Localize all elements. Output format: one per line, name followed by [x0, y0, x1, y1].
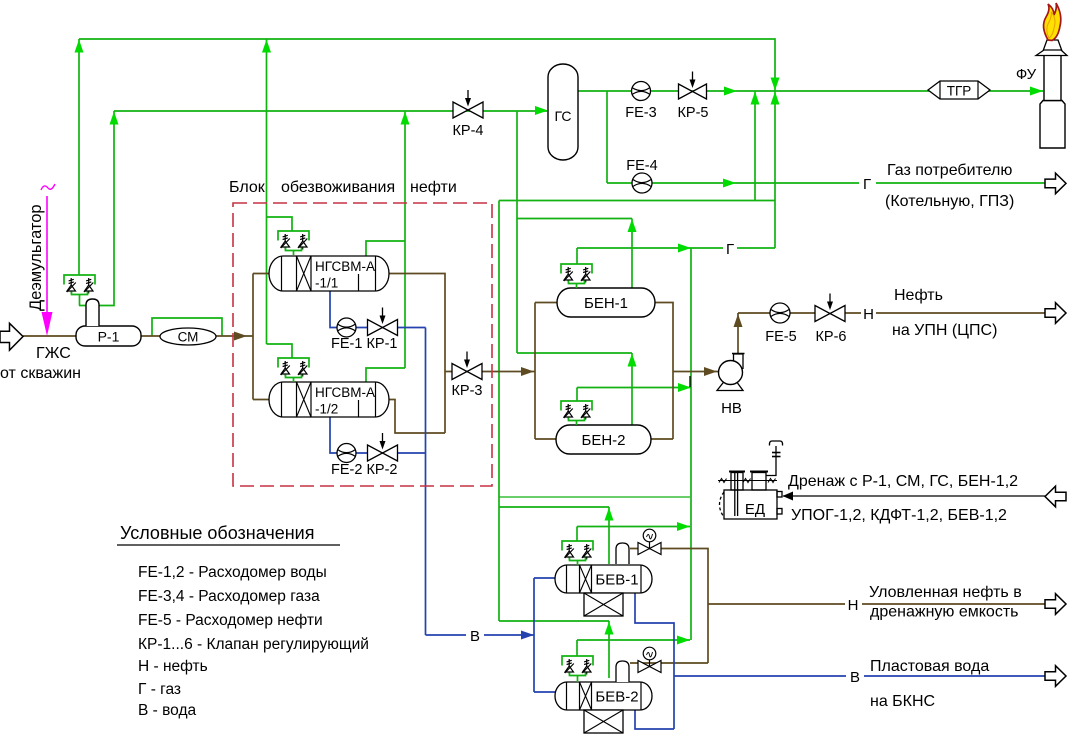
wire: NGSVM-1 gas outlet — [366, 241, 405, 256]
svg-text:нефти: нефти — [410, 179, 457, 196]
control valve KR-2 — [368, 445, 383, 461]
control valve KR-5 — [679, 84, 693, 99]
wire: BEN inlet manifold — [535, 303, 557, 440]
wire: BEN-1 oil outlet — [655, 303, 673, 440]
svg-text:СМ: СМ — [178, 330, 199, 345]
wire: G line y248 left of label — [577, 247, 723, 249]
wire: NGSVM-2 oil outlet — [384, 400, 445, 434]
svg-text:НВ: НВ — [721, 400, 742, 417]
control valve KR-3 — [452, 364, 467, 380]
wire: pump suction — [673, 371, 718, 373]
svg-text:Н: Н — [848, 597, 859, 614]
flow arrow: BEV-2 relief line — [677, 636, 690, 645]
flow arrow: gas to consumer line — [723, 179, 736, 188]
wire: BEV-1 water outlet — [635, 593, 674, 729]
svg-text:В: В — [470, 628, 480, 645]
flow arrow: oil into BEN manifold — [521, 367, 534, 376]
wire: flare header y91 — [578, 90, 1043, 92]
wire: CM to dehydration block — [216, 335, 253, 337]
svg-text:FE-1,2 - Расходомер воды: FE-1,2 - Расходомер воды — [138, 564, 327, 581]
vessel BEV-2 — [555, 682, 652, 733]
outlet arrow: oil to UPN — [1045, 303, 1066, 324]
flow meter FE-5 — [770, 303, 790, 323]
outlet arrow: water to BKNS — [1045, 666, 1066, 687]
svg-text:В: В — [850, 669, 860, 686]
flow arrow: BEV-2 riser — [605, 622, 614, 635]
svg-text:Пластовая вода: Пластовая вода — [870, 658, 989, 675]
wire: P-1 to CM — [141, 335, 160, 337]
arrow on water line — [521, 631, 534, 640]
svg-text:Р-1: Р-1 — [98, 329, 120, 345]
drain line — [783, 495, 1045, 497]
svg-text:FE-4: FE-4 — [626, 158, 657, 174]
flow meter FE-1 — [337, 318, 356, 337]
flow arrow: oil into dehydration block — [234, 332, 247, 341]
svg-text:Г: Г — [726, 241, 734, 258]
wire: BEN-2 relief riser — [576, 388, 578, 402]
vessel GS separator — [548, 64, 578, 160]
wire: BEV-2 water outlet — [635, 710, 674, 729]
flame — [1044, 3, 1061, 41]
relief valves BEN-2 — [561, 401, 592, 425]
svg-text:Условные обозначения: Условные обозначения — [120, 523, 314, 543]
flow arrow: riser x266 into top header — [262, 40, 271, 53]
wire: NGSVM-2 water outlet to FE-2 — [330, 417, 426, 453]
wire: gas collector x691 — [690, 248, 692, 640]
svg-text:НГСВМ-А: НГСВМ-А — [315, 385, 375, 400]
svg-text:ГЖС: ГЖС — [36, 345, 71, 362]
inlet arrow: drains — [1045, 486, 1066, 507]
svg-text:-1/2: -1/2 — [315, 402, 338, 417]
flow arrow: after KR-5 — [724, 87, 737, 96]
flow meter FE-2 — [337, 444, 356, 463]
flow arrow: into flare stack — [1030, 87, 1043, 96]
svg-text:КР-4: КР-4 — [452, 123, 483, 139]
wire: BEV-1 gas line y507 — [499, 506, 609, 508]
svg-text:Деэмульгатор: Деэмульгатор — [27, 204, 45, 311]
dehydration block boundary (dashed) — [233, 203, 492, 486]
legend — [117, 523, 369, 719]
svg-text:FE-5 - Расходомер нефти: FE-5 - Расходомер нефти — [138, 612, 323, 629]
svg-text:Уловленная нефть в: Уловленная нефть в — [869, 584, 1022, 601]
flow meter FE-4 — [632, 173, 652, 193]
svg-text:КР-1...6 - Клапан регулирующий: КР-1...6 - Клапан регулирующий — [138, 636, 369, 653]
flare stack FU — [1036, 40, 1067, 148]
wire: equalization riser x499 down to BEV — [498, 201, 500, 622]
svg-text:КР-6: КР-6 — [815, 329, 846, 345]
wire: BEN-1 gas line y218 — [517, 218, 632, 220]
vessel NGSVM-A U2 -1/2 — [269, 382, 389, 417]
relief valves NGSVM-1 — [278, 231, 309, 255]
demulsifier line — [46, 196, 48, 313]
wire: trapped oil line y604 — [708, 603, 1045, 605]
relief valves P-1 — [64, 275, 95, 306]
svg-text:Г - газ: Г - газ — [138, 681, 181, 698]
wire: green bypass over CM mixer — [152, 318, 222, 336]
wire: BEV inlet manifold x534 — [534, 578, 556, 692]
svg-text:БЕВ-1: БЕВ-1 — [595, 572, 638, 589]
svg-text:БЕН-2: БЕН-2 — [581, 432, 625, 449]
flow arrow: riser x405 into y111 header — [401, 112, 410, 125]
mixer CM — [160, 328, 216, 345]
svg-text:Г: Г — [863, 176, 871, 193]
svg-text:ТГР: ТГР — [947, 84, 972, 99]
svg-text:FE-2 КР-2: FE-2 КР-2 — [331, 462, 397, 478]
relief valves BEV-2 — [562, 656, 593, 682]
wire: riser x114 P-1 to y111 header — [79, 111, 114, 306]
wire: BEN-2 gas line y353 — [517, 352, 632, 354]
wire: NGSVM inlet manifold — [253, 274, 271, 400]
wire: oil inlet GZhS — [23, 335, 76, 337]
inlet arrow GZhS — [0, 323, 23, 350]
wire: BEV-2 top riser — [608, 621, 610, 678]
svg-text:Н - нефть: Н - нефть — [138, 658, 208, 675]
svg-text:на БКНС: на БКНС — [870, 693, 935, 710]
wire: riser x266 to top header — [266, 39, 268, 344]
wire: BEV-2 relief line y640 — [577, 639, 690, 641]
wire: BEN-1 top riser — [631, 219, 633, 289]
wire: BEV-1 relief riser — [576, 527, 578, 542]
svg-text:Нефть: Нефть — [894, 287, 943, 304]
flow arrow: into GS separator — [535, 106, 548, 115]
demulsifier arrow — [42, 312, 53, 336]
wire: BEV-1 relief line y526 — [577, 526, 690, 528]
wire: flare junction riser x775 — [774, 91, 776, 248]
wire: gas to consumer y183 — [607, 182, 1045, 184]
node tick near G — [689, 376, 691, 387]
control valve KR-4 — [453, 102, 468, 118]
svg-text:БЕН-1: БЕН-1 — [584, 295, 628, 312]
wire: FE-4 branch drop x607 — [606, 91, 608, 183]
wire: branch to NGSVM-2 relief — [267, 344, 293, 358]
svg-text:-1/1: -1/1 — [315, 276, 338, 291]
wire: BEN-2 top riser — [631, 353, 633, 425]
wire: BEV-1 oil to drain tank — [630, 549, 708, 664]
wire: NGSVM-2 gas outlet — [366, 368, 405, 382]
flow arrow: G line into collector x691 — [678, 244, 691, 253]
vessel P-1 — [76, 326, 141, 346]
wire: branch to NGSVM-1 relief — [267, 217, 293, 231]
wire: thin link y497 — [499, 496, 690, 498]
outlet arrow: gas to consumer — [1045, 173, 1066, 194]
wire: BEV-2 oil line — [630, 662, 708, 664]
wire: riser x517 BEN gas to y111 header — [516, 111, 518, 353]
flow arrow: x775 up into flare header — [771, 92, 780, 105]
svg-text:БЕВ-2: БЕВ-2 — [595, 689, 638, 706]
svg-text:от скважин: от скважин — [0, 365, 81, 382]
wire: BEV-2 relief riser — [576, 640, 578, 656]
pump NV — [717, 354, 745, 418]
svg-text:Дренаж с Р-1, СМ, ГС, БЕН-1,2: Дренаж с Р-1, СМ, ГС, БЕН-1,2 — [788, 473, 1018, 490]
hand valve on BEV-2 nozzle — [616, 647, 661, 682]
svg-text:FE-3: FE-3 — [625, 105, 656, 121]
wire: gas equalization header y200 — [499, 200, 775, 202]
svg-text:ЕД: ЕД — [745, 501, 765, 518]
drain vessel ED — [718, 441, 783, 519]
svg-text:(Котельную, ГПЗ): (Котельную, ГПЗ) — [885, 193, 1014, 210]
flow meter FE-3 — [632, 82, 651, 101]
svg-text:обезвоживания: обезвоживания — [281, 179, 395, 196]
control valve KR-6 — [815, 306, 830, 322]
svg-text:ФУ: ФУ — [1016, 66, 1037, 83]
svg-text:ГС: ГС — [554, 108, 571, 124]
wire: water downcomer x425 — [426, 328, 535, 636]
svg-text:FE-5: FE-5 — [765, 329, 796, 345]
wire: pump discharge to FE-5 — [738, 313, 1045, 353]
vessel BEN-2 — [556, 425, 651, 454]
flow arrow: BEV-1 relief line — [677, 522, 690, 531]
flow arrow: pump suction — [704, 367, 717, 376]
wire: NGSVM-1 oil outlet — [384, 274, 445, 434]
outlet arrow: trapped oil — [1045, 594, 1066, 615]
wire: BEN-1 relief riser — [576, 248, 578, 264]
hand valve on BEV-1 nozzle — [616, 529, 661, 564]
wire: gas header y111 from P-1 to GS — [114, 110, 547, 112]
relief valves BEV-1 — [562, 541, 593, 565]
wire: NGSVM-1 water outlet to FE-1 — [330, 291, 426, 328]
wire: flare junction riser x755 — [754, 91, 756, 201]
wire: BEV-1 top riser — [608, 507, 610, 564]
vessel BEN-1 — [557, 288, 655, 317]
svg-text:Блок: Блок — [229, 179, 266, 196]
svg-text:FE-3,4 - Расходомер газа: FE-3,4 - Расходомер газа — [138, 588, 320, 605]
wire: gas top header y39 — [79, 39, 775, 91]
svg-text:Н: Н — [863, 306, 874, 323]
wire: formation water to BKNS y676 — [674, 675, 1045, 677]
wire: BEV-2 gas line y621 — [499, 620, 609, 622]
wire: G line y248 right of label — [737, 247, 775, 249]
flow arrow: BEN-1 riser — [628, 219, 637, 232]
svg-text:FE-1 КР-1: FE-1 КР-1 — [331, 336, 397, 352]
wire: BEN-2 oil outlet — [651, 438, 673, 440]
flame arrestor TGR — [928, 81, 990, 99]
flow arrow: pump discharge — [734, 314, 743, 327]
flow arrow: BEN-2 riser — [628, 354, 637, 367]
svg-text:НГСВМ-А: НГСВМ-А — [315, 259, 375, 274]
flow arrow: riser x79 into top header — [75, 40, 84, 53]
wire: riser x79 P-1 relief to top header — [78, 39, 80, 275]
svg-text:Газ потребителю: Газ потребителю — [887, 162, 1012, 179]
wire: oil line to KR-3 and BEN manifold — [445, 371, 535, 373]
flow arrow: BEV-1 riser — [605, 508, 614, 521]
control valve KR-1 — [368, 320, 383, 336]
flow arrow: BEN-2 relief line — [678, 383, 691, 392]
svg-text:КР-3: КР-3 — [451, 383, 482, 399]
wire: BEN-2 relief line y387 — [577, 387, 691, 389]
wire: riser x405 NGSVM gas to y111 header — [404, 111, 406, 368]
svg-text:на УПН (ЦПС): на УПН (ЦПС) — [892, 322, 997, 339]
relief valves BEN-1 — [561, 264, 592, 288]
vessel BEV-1 — [555, 565, 652, 616]
svg-text:УПОГ-1,2, КДФТ-1,2, БЕВ-1,2: УПОГ-1,2, КДФТ-1,2, БЕВ-1,2 — [791, 507, 1007, 524]
relief valves NGSVM-2 — [278, 358, 309, 382]
flow arrow: riser x114 into y111 header — [110, 112, 119, 125]
svg-text:В - вода: В - вода — [138, 702, 196, 719]
svg-text:КР-5: КР-5 — [677, 105, 708, 121]
svg-text:дренажную емкость: дренажную емкость — [870, 604, 1019, 621]
flow arrow: riser x755 into flare header — [751, 92, 760, 105]
flow arrow: x775 down into flare header — [771, 78, 780, 91]
vessel NGSVM-A U1 -1/1 — [269, 256, 389, 291]
